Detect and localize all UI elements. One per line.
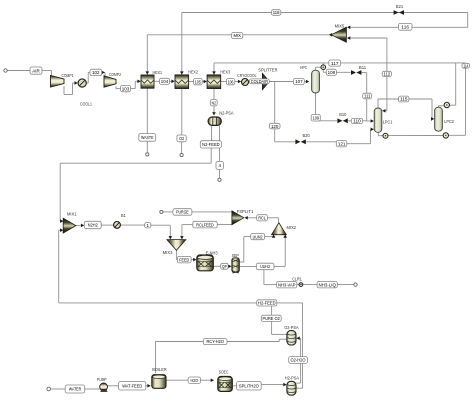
svg-text:CLR1: CLR1 bbox=[292, 276, 302, 281]
svg-text:UUH2: UUH2 bbox=[260, 264, 270, 269]
svg-text:HEX1: HEX1 bbox=[153, 70, 163, 75]
svg-text:B1: B1 bbox=[121, 213, 126, 218]
svg-text:N2H2: N2H2 bbox=[88, 223, 98, 228]
svg-text:FEED: FEED bbox=[179, 257, 189, 262]
svg-text:COOL1: COOL1 bbox=[80, 102, 92, 107]
svg-text:118: 118 bbox=[273, 10, 280, 15]
svg-text:N2-FEED: N2-FEED bbox=[202, 142, 220, 147]
svg-text:B20: B20 bbox=[303, 133, 311, 138]
svg-text:HEX3: HEX3 bbox=[220, 69, 230, 74]
svg-text:WAT-FEED: WAT-FEED bbox=[122, 383, 143, 388]
svg-text:117: 117 bbox=[331, 61, 339, 66]
svg-text:4: 4 bbox=[218, 163, 221, 168]
svg-text:RCL: RCL bbox=[258, 216, 266, 221]
svg-text:121: 121 bbox=[338, 141, 346, 146]
svg-text:O2: O2 bbox=[179, 136, 184, 141]
svg-text:MIX5: MIX5 bbox=[335, 24, 345, 29]
svg-text:MIX3: MIX3 bbox=[163, 250, 173, 255]
svg-text:BOILER: BOILER bbox=[152, 367, 167, 372]
svg-text:HEX2: HEX2 bbox=[188, 69, 198, 74]
svg-text:102: 102 bbox=[92, 70, 100, 75]
svg-text:NH3-VAP: NH3-VAP bbox=[278, 282, 296, 287]
svg-text:PUMP: PUMP bbox=[97, 377, 107, 382]
svg-text:105: 105 bbox=[195, 79, 201, 84]
svg-text:116: 116 bbox=[401, 25, 409, 30]
svg-text:106: 106 bbox=[228, 79, 234, 84]
svg-text:AIR: AIR bbox=[32, 68, 40, 73]
svg-text:120: 120 bbox=[271, 124, 279, 129]
svg-text:1: 1 bbox=[146, 223, 149, 228]
svg-text:N2: N2 bbox=[212, 100, 217, 105]
svg-text:108: 108 bbox=[328, 70, 336, 75]
svg-text:B21: B21 bbox=[396, 4, 404, 9]
svg-text:SPLITH2O: SPLITH2O bbox=[239, 383, 259, 388]
svg-text:QP: QP bbox=[222, 264, 227, 269]
svg-text:LPC1: LPC1 bbox=[383, 119, 393, 124]
svg-text:CRYOCOOL: CRYOCOOL bbox=[237, 73, 256, 78]
svg-text:PURE-O2: PURE-O2 bbox=[263, 316, 281, 321]
svg-text:112: 112 bbox=[384, 72, 391, 77]
svg-text:109: 109 bbox=[313, 115, 320, 120]
svg-text:103: 103 bbox=[122, 86, 130, 91]
svg-text:H2-PSA: H2-PSA bbox=[285, 376, 300, 381]
svg-text:SOEC: SOEC bbox=[219, 369, 229, 374]
svg-text:HPC: HPC bbox=[300, 65, 308, 70]
svg-text:N2-PSA: N2-PSA bbox=[219, 111, 234, 116]
svg-text:RCY-H2O: RCY-H2O bbox=[206, 339, 224, 344]
svg-text:RCLFEED: RCLFEED bbox=[196, 222, 214, 227]
svg-text:SEP: SEP bbox=[232, 253, 239, 258]
svg-text:WATER: WATER bbox=[69, 387, 82, 392]
svg-text:115: 115 bbox=[400, 97, 408, 102]
svg-text:B10: B10 bbox=[339, 112, 347, 117]
svg-text:H2O: H2O bbox=[191, 378, 199, 383]
svg-text:COMP1: COMP1 bbox=[62, 73, 74, 78]
svg-text:H2-FEED: H2-FEED bbox=[258, 301, 276, 306]
svg-text:110: 110 bbox=[353, 119, 361, 124]
svg-text:UUN2: UUN2 bbox=[253, 234, 263, 239]
svg-text:NH3-LIQ: NH3-LIQ bbox=[318, 282, 336, 287]
svg-text:114: 114 bbox=[463, 63, 468, 68]
svg-text:O2-PSA: O2-PSA bbox=[284, 325, 299, 330]
svg-text:MIX2: MIX2 bbox=[287, 225, 297, 230]
svg-text:107: 107 bbox=[295, 79, 303, 84]
svg-text:104: 104 bbox=[161, 79, 169, 84]
svg-text:O2-H2O: O2-H2O bbox=[291, 358, 306, 363]
svg-text:LPC2: LPC2 bbox=[444, 119, 454, 124]
svg-text:PURGE: PURGE bbox=[176, 210, 189, 215]
svg-text:B11: B11 bbox=[359, 65, 367, 70]
svg-text:E-NH3: E-NH3 bbox=[206, 251, 218, 256]
svg-text:MIX: MIX bbox=[233, 33, 241, 38]
svg-text:111: 111 bbox=[364, 94, 371, 99]
svg-text:SPLITTER: SPLITTER bbox=[258, 67, 278, 72]
svg-text:MIX1: MIX1 bbox=[67, 212, 77, 217]
svg-text:COLDAIR: COLDAIR bbox=[251, 79, 269, 84]
svg-text:WASTE: WASTE bbox=[141, 135, 154, 140]
svg-text:COMP2: COMP2 bbox=[109, 72, 121, 77]
svg-text:FSPLIT1: FSPLIT1 bbox=[237, 209, 254, 214]
